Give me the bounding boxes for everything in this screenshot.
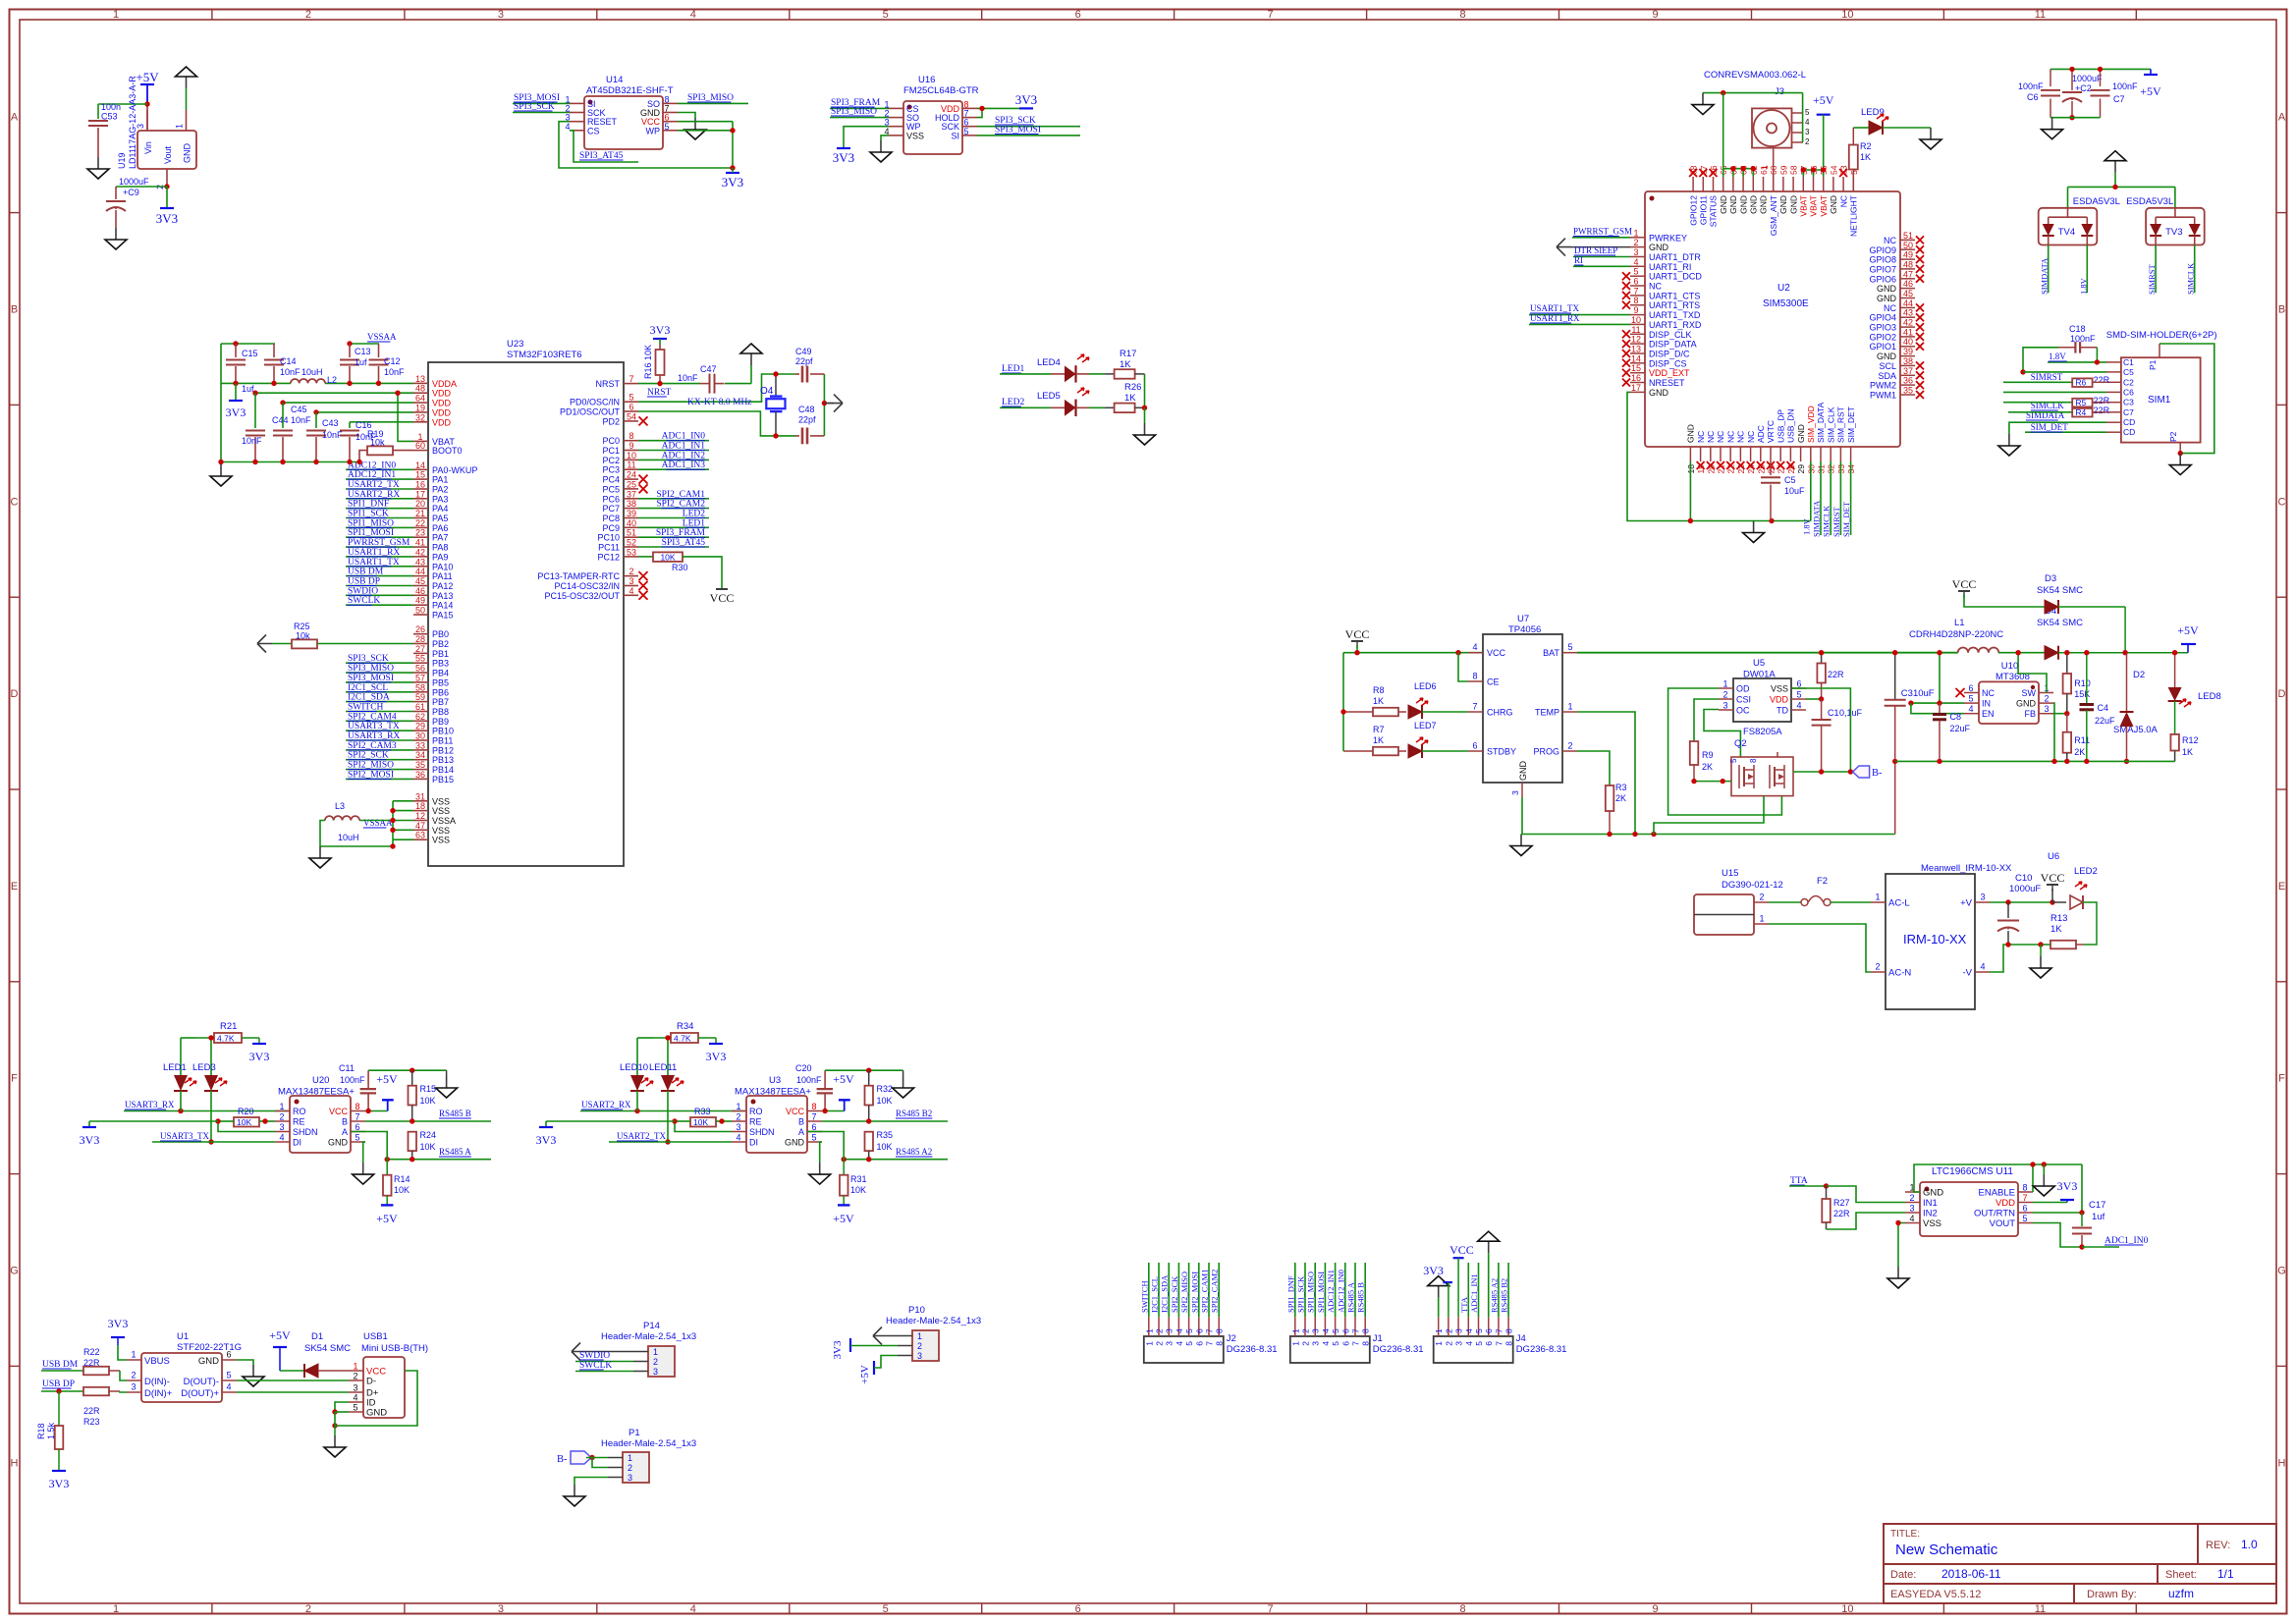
pin 1 VCC [349,1370,363,1372]
svg-text:9: 9 [629,441,633,451]
svg-text:12: 12 [415,811,425,821]
wire FB [2053,713,2067,715]
svg-text:RI: RI [1574,255,1583,265]
no-connect X [1747,461,1755,469]
pin 7 UART1_CTS [1630,295,1645,297]
pin 60 BOOT0 [413,450,428,452]
svg-text:7: 7 [355,1112,359,1122]
svg-text:GND: GND [1649,243,1669,252]
capacitor C43 10nF [315,412,317,428]
svg-text:R8: R8 [1373,685,1385,695]
net SIMDATA [1820,461,1822,535]
svg-text:3: 3 [629,576,633,586]
svg-text:VDD: VDD [432,389,452,399]
pin 6 PD1/OSC/OUT [624,410,638,412]
svg-text:GND: GND [198,1356,219,1367]
svg-text:37: 37 [627,489,636,499]
svg-text:GND: GND [1829,195,1838,214]
svg-text:KX-KT 8.0 MHz: KX-KT 8.0 MHz [687,398,752,407]
svg-text:PWRKEY: PWRKEY [1649,233,1687,243]
svg-text:7: 7 [1472,702,1477,712]
svg-text:GPIO4: GPIO4 [1869,313,1896,323]
svg-text:100n: 100n [101,102,121,112]
svg-text:SPI1_MOSI: SPI1_MOSI [1316,1271,1326,1313]
pin 27 PB1 [413,652,428,654]
input port arrow [1557,239,1571,256]
svg-text:EASYEDA V5.5.12: EASYEDA V5.5.12 [1890,1589,1981,1600]
svg-text:ENABLE: ENABLE [1979,1188,2016,1199]
svg-text:IN2: IN2 [1923,1209,1938,1219]
svg-text:54: 54 [627,411,636,421]
net ADC1_IN0 [2082,1246,2119,1248]
svg-text:R21: R21 [220,1021,237,1032]
svg-text:2: 2 [1301,1341,1311,1346]
net RS485 A2 [844,1159,948,1161]
svg-text:USART3_RX: USART3_RX [125,1100,175,1109]
svg-text:J4: J4 [1516,1333,1526,1344]
svg-text:10nF: 10nF [384,367,405,377]
svg-text:3V3: 3V3 [706,1050,727,1063]
svg-text:VCC: VCC [1345,627,1370,641]
net USART3_TX [152,1141,211,1143]
svg-text:5: 5 [1633,267,1638,277]
svg-text:AC-L: AC-L [1888,898,1910,909]
node [410,1118,414,1123]
svg-text:+5V: +5V [269,1328,291,1342]
pin 3 [1168,1317,1170,1336]
no-connect X [1622,359,1630,367]
capacitor C16 10nF [349,422,351,428]
node [1811,167,1816,172]
pin 35 PWM1 [1900,394,1915,396]
svg-text:2: 2 [736,1112,740,1122]
svg-text:22pf: 22pf [795,356,813,366]
svg-text:PC12: PC12 [597,552,620,562]
svg-text:R18: R18 [36,1423,46,1439]
svg-text:22uF: 22uF [2095,716,2115,726]
svg-text:PA11: PA11 [432,571,453,581]
pin 4 [1177,1317,1179,1336]
svg-text:40: 40 [627,518,636,528]
pin 5 SI [962,135,977,136]
svg-text:15: 15 [415,470,425,480]
svg-text:C2: C2 [2123,377,2134,387]
no-connect X [1622,292,1630,299]
svg-text:D-: D- [366,1377,376,1387]
svg-text:CONREVSMA003.062-L: CONREVSMA003.062-L [1704,70,1806,81]
port B- [1853,766,1870,778]
net SPI1_MOSI [1324,1263,1326,1317]
pin 54 PD2 [624,420,638,422]
svg-text:+C9: +C9 [123,188,139,197]
node [233,381,238,386]
svg-text:C11: C11 [339,1063,355,1073]
svg-text:U6: U6 [2048,851,2059,862]
svg-text:PA3: PA3 [432,494,448,504]
wire D+ [237,1391,349,1393]
svg-text:I2C1_SCL: I2C1_SCL [1150,1276,1160,1313]
pin 6 [1344,1317,1346,1336]
no-connect X [1956,688,1965,697]
svg-text:3V3: 3V3 [49,1477,70,1490]
pin 48 VDD [413,392,428,394]
wire [181,1037,196,1039]
svg-text:DISP_CS: DISP_CS [1649,358,1687,368]
pin 25 ADC [1760,447,1762,461]
net SPI2_CAM2 [638,508,709,510]
svg-text:4: 4 [1968,704,1973,714]
wire [1458,653,1468,681]
pin 58 PB6 [413,691,428,693]
node [390,808,395,813]
svg-text:4: 4 [1321,1341,1331,1346]
svg-text:4: 4 [1633,257,1638,267]
svg-text:R3: R3 [1615,783,1627,792]
net 1.8V [2048,361,2106,363]
net SPI3_FRAM [830,107,889,109]
svg-text:ADC: ADC [1756,425,1766,443]
svg-text:1: 1 [279,1102,284,1111]
svg-text:45: 45 [1903,289,1913,298]
svg-text:10K: 10K [237,1117,251,1127]
wire [2159,344,2214,454]
svg-text:2: 2 [1155,1328,1165,1333]
power flag +5V [381,1204,393,1206]
svg-text:2: 2 [2044,694,2049,704]
no-connect X [1699,169,1707,177]
node [730,128,735,133]
node [208,1035,213,1040]
svg-text:SK54 SMC: SK54 SMC [2037,618,2083,628]
pin 8 VDD [962,107,977,109]
pin 3 GND [1521,783,1523,797]
svg-text:59: 59 [415,692,425,702]
no-connect X [1916,343,1924,351]
net SPI3_MISO [346,672,413,674]
svg-text:PWM1: PWM1 [1870,391,1896,401]
svg-text:J2: J2 [1227,1333,1236,1344]
svg-text:GPIO9: GPIO9 [1869,245,1896,255]
svg-text:GPIO8: GPIO8 [1869,255,1896,265]
svg-text:SHDN: SHDN [749,1127,775,1137]
svg-text:51: 51 [627,528,636,538]
no-connect X [1757,461,1765,469]
svg-text:NC: NC [1736,431,1746,443]
svg-text:R4: R4 [2075,407,2086,417]
ground [115,228,117,240]
svg-text:U16: U16 [918,75,935,85]
svg-text:3V3: 3V3 [80,1133,100,1147]
svg-text:GND: GND [1796,424,1806,443]
no-connect X [639,475,648,484]
svg-text:E: E [2278,881,2285,893]
pin 3 WP [889,126,903,128]
ground [363,1142,365,1163]
node [2079,1244,2084,1249]
svg-text:SIMRST: SIMRST [1831,506,1841,537]
node [672,1118,677,1123]
pin 35 PB14 [413,769,428,771]
svg-text:PA13: PA13 [432,591,453,601]
node [2112,185,2117,189]
svg-text:C20: C20 [795,1063,812,1073]
wire TEMP [1577,712,1635,835]
svg-text:6: 6 [355,1122,359,1132]
svg-text:PD2: PD2 [602,416,620,426]
pin 56 VBAT [1813,177,1815,191]
svg-text:SIMCLK: SIMCLK [1822,505,1831,537]
pin 2 [1158,1317,1160,1336]
pin 44 PA11 [413,575,428,577]
pin 4 VCC [1468,652,1483,654]
svg-text:F: F [11,1073,18,1085]
svg-text:DG236-8.31: DG236-8.31 [1516,1344,1567,1355]
wire OUT/RTN [2033,1212,2082,1214]
svg-text:6: 6 [629,403,633,412]
power flag 3V3 [977,107,1026,109]
pin 1 OD [1719,687,1733,689]
capacitor C13 1uf [349,344,351,357]
wire [637,1037,653,1039]
svg-text:PA12: PA12 [432,581,453,591]
svg-text:10K: 10K [877,1096,893,1106]
svg-text:2: 2 [1567,741,1572,751]
svg-text:3: 3 [2044,704,2049,714]
svg-text:R6: R6 [2075,378,2086,388]
svg-text:A: A [11,112,19,124]
svg-text:SIMRST: SIMRST [2031,372,2063,382]
svg-text:4: 4 [1464,1341,1474,1346]
pin 20 NC [1710,447,1712,461]
svg-text:R32: R32 [877,1084,894,1094]
svg-text:C17: C17 [2089,1200,2105,1211]
net PWRRST_GSM [1572,237,1630,239]
pin 24 PC4 [624,478,638,480]
wire [221,343,275,345]
svg-text:4: 4 [1472,642,1477,652]
node +5V junction [144,101,149,106]
pin 30 SIM_VDD [1810,447,1812,461]
no-connect X [639,591,648,600]
svg-text:R10: R10 [2074,678,2091,688]
pin 8 ENABLE [2018,1191,2033,1193]
svg-text:C53: C53 [101,112,118,122]
svg-text:F2: F2 [1817,876,1828,887]
pin 49 GPIO8 [1900,258,1915,260]
wire [116,186,167,188]
pin 5 [1478,1317,1480,1336]
pin 16 PA2 [413,488,428,490]
svg-text:NC: NC [1716,431,1725,443]
svg-text:1: 1 [1760,165,1770,170]
svg-text:22R: 22R [2094,375,2110,385]
svg-text:1: 1 [131,1350,136,1360]
wire [1342,653,1344,751]
ground [220,464,222,476]
wire VDD [2033,1202,2067,1204]
no-connect X [1622,282,1630,290]
svg-text:22pf: 22pf [798,415,816,425]
svg-text:I2C1_SDA: I2C1_SDA [1160,1274,1170,1313]
svg-text:22: 22 [415,518,425,528]
pin 6 [1488,1317,1490,1336]
node [1740,166,1745,171]
net SPI2_CAM1 [1208,1263,1210,1317]
pin 40 GPIO1 [1900,346,1915,348]
svg-text:2: 2 [1633,238,1638,247]
svg-text:6: 6 [1194,1328,1204,1333]
svg-text:PB3: PB3 [432,659,449,669]
pin 4 DI [275,1141,290,1143]
svg-text:PA15: PA15 [432,611,453,621]
svg-text:GPIO7: GPIO7 [1869,264,1896,274]
svg-text:VOUT: VOUT [1990,1218,2016,1229]
pin 8 PC0 [624,440,638,442]
wire antenna top [1703,92,1803,94]
pin 57 VBAT [1802,177,1804,191]
wire [98,103,147,105]
svg-text:SW: SW [2022,688,2037,698]
svg-text:56: 56 [415,664,425,674]
net SPI1_SCK [1304,1263,1306,1317]
svg-text:DG390-021-12: DG390-021-12 [1722,880,1783,891]
ground [2043,1164,2045,1174]
pin 37 SDA [1900,374,1915,376]
svg-text:1: 1 [1290,1328,1300,1333]
pin 3 [633,1371,648,1373]
net SPI3_SCK [977,126,1080,128]
svg-text:PB9: PB9 [432,717,449,727]
svg-text:LED6: LED6 [1414,681,1437,691]
svg-text:2: 2 [629,567,633,576]
net SIMRST [2155,245,2157,294]
svg-text:LED4: LED4 [1037,357,1061,368]
svg-text:LD1117AG-12-AA3-A-R: LD1117AG-12-AA3-A-R [128,76,137,169]
svg-text:DI: DI [749,1138,758,1148]
svg-text:RS485 A: RS485 A [439,1147,471,1157]
net ADC1_IN2 [638,459,709,460]
svg-text:1000uF: 1000uF [2072,74,2103,83]
svg-text:PB7: PB7 [432,697,449,707]
svg-text:3: 3 [628,1473,632,1483]
svg-text:10K: 10K [693,1117,708,1127]
wire [120,1371,127,1380]
pin 5 VDD [1791,698,1806,700]
wire VCC loop right [335,1371,417,1426]
svg-text:47: 47 [1903,269,1913,279]
svg-text:2: 2 [1722,690,1727,700]
node [332,1409,337,1414]
svg-text:8: 8 [355,1102,359,1111]
svg-text:VCC: VCC [786,1107,805,1116]
svg-text:3: 3 [1909,1204,1914,1214]
svg-text:G: G [2277,1266,2286,1277]
svg-text:PC3: PC3 [602,465,620,475]
svg-text:SCL: SCL [1879,361,1896,371]
node [365,1109,370,1113]
svg-text:3: 3 [917,1351,922,1361]
svg-text:PB5: PB5 [432,677,449,687]
svg-text:3: 3 [1633,247,1638,257]
svg-text:16: 16 [1631,373,1641,383]
net ADC1_IN0 [638,440,709,442]
node [56,1388,61,1393]
pin 7 VDD [2018,1202,2033,1204]
svg-text:C44: C44 [272,415,289,425]
pin 1 VBAT [413,440,428,442]
svg-text:22R: 22R [2094,406,2110,415]
pin C1 [2106,361,2121,363]
pin C5 [2106,371,2121,373]
svg-text:PB12: PB12 [432,745,454,755]
pin 47 VSS [413,829,428,831]
pin 42 GPIO3 [1900,326,1915,328]
pin 61 PB8 [413,711,428,713]
svg-text:USB_DN: USB_DN [1786,409,1796,443]
pin 5 [1188,1317,1190,1336]
svg-text:PA14: PA14 [432,601,453,611]
pin 2 SCK [570,112,584,114]
pin 7 HOLD [962,117,977,119]
node [2005,942,2010,947]
svg-text:P1: P1 [2148,359,2158,370]
svg-text:H: H [11,1457,19,1469]
svg-text:F: F [2278,1073,2285,1085]
pin 64 GND [1732,177,1734,191]
wire [2023,371,2106,373]
no-connect X [639,581,648,590]
svg-text:46: 46 [415,586,425,596]
wire B- [1793,771,1850,773]
ground arrow [1438,1286,1440,1298]
svg-text:2: 2 [305,1603,311,1615]
no-connect X [1717,461,1724,469]
svg-text:1000uF: 1000uF [119,177,149,187]
pin 5 D(OUT)- [222,1380,237,1381]
svg-text:PA7: PA7 [432,533,448,543]
svg-text:22R: 22R [83,1406,100,1416]
svg-text:SPI1_SCK: SPI1_SCK [1296,1275,1306,1313]
svg-text:2: 2 [1909,1193,1914,1203]
svg-text:2: 2 [279,1112,284,1122]
no-connect X [1622,379,1630,387]
svg-text:4: 4 [565,122,570,132]
net SPI1_MISO [346,526,413,528]
capacitor C1 0,1uF [1821,699,1823,719]
no-connect X [1767,461,1775,469]
svg-text:5: 5 [1331,1341,1340,1346]
node [842,1157,847,1162]
ground [1930,128,1932,139]
svg-text:40: 40 [1903,337,1913,347]
svg-text:GPIO6: GPIO6 [1869,274,1896,284]
svg-text:10uF: 10uF [1784,486,1805,496]
svg-text:GND: GND [1649,388,1669,398]
wire Q2 source loop [1654,796,1764,835]
svg-text:5: 5 [811,1133,816,1143]
wire VOUT [2033,1223,2082,1248]
resistor 22R [1821,653,1823,664]
svg-text:27: 27 [415,644,425,654]
svg-text:22R: 22R [1833,1209,1850,1218]
svg-text:3: 3 [1165,1341,1175,1346]
svg-text:48: 48 [1903,259,1913,269]
no-connect X [1916,303,1924,311]
wire [218,1120,234,1122]
svg-text:FM25CL64B-GTR: FM25CL64B-GTR [903,85,979,96]
svg-text:+5V: +5V [859,1365,871,1384]
svg-text:60: 60 [415,441,425,451]
